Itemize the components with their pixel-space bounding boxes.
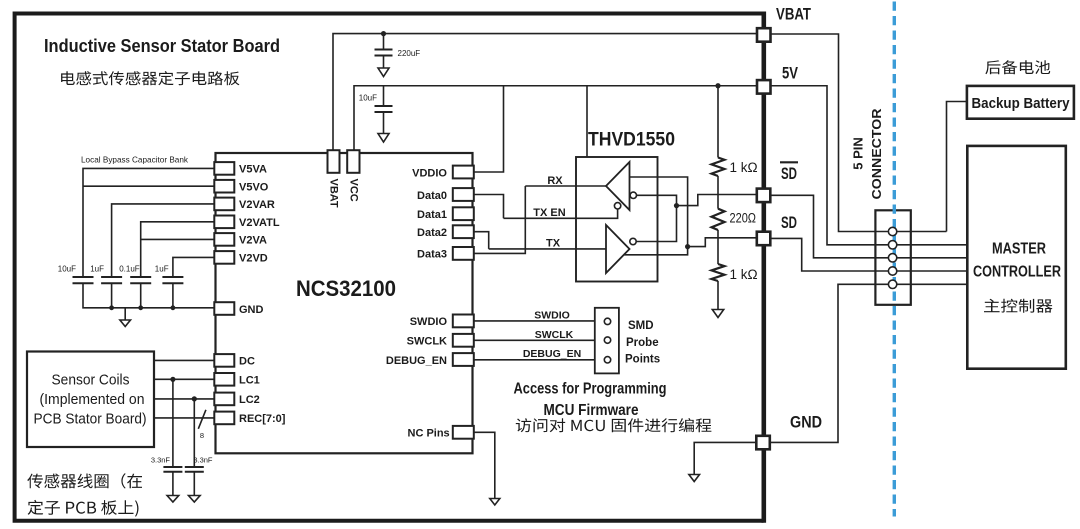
ground (resistor chain) <box>712 281 723 318</box>
pin DEBUG_EN <box>453 353 474 366</box>
box Backup Battery <box>967 86 1074 119</box>
wire RX <box>525 185 606 187</box>
svg-text:MASTER: MASTER <box>992 241 1046 258</box>
svg-text:NCS32100: NCS32100 <box>296 276 396 301</box>
connector pin circles <box>888 227 896 235</box>
ground (cap bank) <box>120 308 131 327</box>
pin V2VA <box>214 233 234 246</box>
left pins of NCS32100 <box>214 162 285 425</box>
junction dot LC2 <box>192 396 197 401</box>
svg-text:Probe: Probe <box>626 337 659 349</box>
pin V2VATL <box>214 216 234 229</box>
svg-text:Inductive Sensor Stator Board: Inductive Sensor Stator Board <box>44 35 280 56</box>
junction dot B net <box>674 203 679 208</box>
capacitor 3.3nF (2) <box>185 399 213 502</box>
svg-text:SD: SD <box>781 165 797 183</box>
label zh-coils2 <box>28 500 139 517</box>
svg-text:Data1: Data1 <box>417 209 447 221</box>
wire GND to connector pin5 <box>770 284 968 442</box>
enable bubble <box>614 203 620 209</box>
svg-text:PCB Stator Board): PCB Stator Board) <box>34 411 147 428</box>
capacitor 10uF (bank) <box>58 265 94 284</box>
junction dot A net <box>685 244 690 249</box>
svg-text:CONTROLLER: CONTROLLER <box>973 263 1061 280</box>
wire V5VA <box>83 168 214 277</box>
svg-text:SD: SD <box>781 214 797 232</box>
svg-text:1uF: 1uF <box>155 265 169 274</box>
bus line (board right edge) <box>761 12 766 523</box>
svg-text:DC: DC <box>239 356 255 368</box>
wire SD-bar to connector pin3 <box>770 195 967 257</box>
dashed board boundary <box>893 2 896 517</box>
svg-text:220Ω: 220Ω <box>730 210 757 225</box>
wire B to SD-bar square <box>677 195 758 206</box>
svg-text:220uF: 220uF <box>398 49 421 58</box>
label zh-mcu <box>516 418 712 432</box>
pin V5VA <box>214 162 234 175</box>
svg-text:V2VATL: V2VATL <box>239 217 280 229</box>
wire GND rail <box>83 283 214 308</box>
bus width slash 8 <box>198 410 206 440</box>
svg-text:VBAT: VBAT <box>776 6 811 24</box>
svg-text:3.3nF: 3.3nF <box>193 456 213 465</box>
ground (NC pins) <box>490 499 500 506</box>
svg-text:V5VO: V5VO <box>239 181 269 193</box>
svg-text:(Implemented on: (Implemented on <box>40 391 145 408</box>
node VBAT square <box>757 28 771 42</box>
right pins of NCS32100 <box>386 166 474 440</box>
label SD-bar <box>780 162 798 183</box>
wire 5V to connector pin2 <box>771 86 968 245</box>
svg-text:MCU Firmware: MCU Firmware <box>544 402 639 419</box>
board outline (Inductive Sensor Stator Board) <box>15 14 764 521</box>
svg-text:DEBUG_EN: DEBUG_EN <box>386 355 447 367</box>
label zh-master <box>984 299 1053 313</box>
svg-text:RX: RX <box>547 175 563 187</box>
svg-text:Data2: Data2 <box>417 227 447 239</box>
svg-text:VBAT: VBAT <box>328 179 340 208</box>
capacitor 10uF <box>359 86 393 142</box>
resistor R1 1 kOhm (top) <box>712 86 758 176</box>
wire V2VAR <box>112 204 215 277</box>
wire LC2 <box>154 398 214 400</box>
wire DEBUG_EN <box>474 359 605 361</box>
wire V2VA <box>141 238 215 240</box>
transceiver U2 THVD1550 <box>576 157 658 282</box>
pin Data3 <box>453 247 474 260</box>
svg-text:CONNECTOR: CONNECTOR <box>869 108 884 200</box>
svg-text:3.3nF: 3.3nF <box>151 456 171 465</box>
svg-text:SWDIO: SWDIO <box>410 316 448 328</box>
pin LC1 <box>214 373 234 386</box>
pin Data2 <box>453 225 474 238</box>
pin LC2 <box>214 393 234 406</box>
pin GND <box>214 302 234 315</box>
wire V2VATL <box>141 222 215 277</box>
receiver triangle (in THVD1550) <box>606 162 630 210</box>
svg-text:VCC: VCC <box>348 179 360 202</box>
wire SWDIO <box>474 320 605 322</box>
pin REC[7:0] <box>214 412 234 425</box>
svg-text:GND: GND <box>239 304 264 316</box>
capacitor 1uF (bank) <box>90 265 122 284</box>
wire VBAT net (pin up, across to VBAT square) <box>333 34 757 151</box>
svg-text:Backup Battery: Backup Battery <box>972 95 1071 112</box>
pin VBAT (top) <box>328 150 340 173</box>
svg-text:8: 8 <box>200 431 204 440</box>
svg-text:Access for Programming: Access for Programming <box>514 381 667 398</box>
junction dot VBAT/220uF <box>381 31 386 36</box>
capacitor 1uF (bank 2) <box>155 265 184 284</box>
junction dot 5V/resistor chain <box>715 83 720 88</box>
pin V2VAR <box>214 198 234 211</box>
svg-text:Local Bypass Capacitor Bank: Local Bypass Capacitor Bank <box>81 155 189 165</box>
svg-text:1uF: 1uF <box>90 265 104 274</box>
pin DC <box>214 354 234 367</box>
net A loop (receiver input / driver output) <box>624 177 688 255</box>
wire A to SD square <box>688 238 757 247</box>
wire TX <box>489 248 606 250</box>
pin VCC (top) <box>347 150 359 173</box>
svg-text:TX EN: TX EN <box>533 207 565 219</box>
wire V5VO <box>83 185 214 187</box>
svg-text:NC Pins: NC Pins <box>408 428 450 440</box>
wire Data2 to TX <box>474 232 489 249</box>
svg-text:10uF: 10uF <box>58 265 76 274</box>
svg-text:10uF: 10uF <box>359 94 377 103</box>
svg-text:SWDIO: SWDIO <box>534 310 570 322</box>
wire REC[7:0] <box>154 417 214 419</box>
wire DC <box>154 359 214 361</box>
svg-text:DEBUG_EN: DEBUG_EN <box>523 348 581 360</box>
svg-text:SWCLK: SWCLK <box>535 329 574 341</box>
svg-text:LC1: LC1 <box>239 375 260 387</box>
wire GND left + ground arrow <box>694 442 756 474</box>
node SD square <box>757 232 771 246</box>
svg-text:SMD: SMD <box>628 320 654 332</box>
SMD probe points header <box>595 308 619 374</box>
net B loop (bubbles) <box>636 195 676 241</box>
pin Data0 <box>453 188 474 201</box>
resistor R3 1 kOhm (bottom) <box>712 230 758 282</box>
pin VDDIO <box>453 166 474 179</box>
junction dot LC1 <box>170 377 175 382</box>
connector J1 (5 pin) <box>875 210 910 304</box>
wire V2VD <box>173 257 214 277</box>
capacitor 0.1uF (bank) <box>119 265 151 284</box>
svg-text:0.1uF: 0.1uF <box>119 265 140 274</box>
box Sensor Coils <box>27 352 154 448</box>
svg-text:V2VD: V2VD <box>239 253 268 265</box>
svg-text:GND: GND <box>790 414 822 432</box>
label zh-battery <box>985 60 1050 74</box>
svg-text:5 PIN: 5 PIN <box>851 137 866 170</box>
pin SWDIO <box>453 315 474 328</box>
label zh-subtitle <box>61 71 239 85</box>
wire VDDIO to 5V <box>474 86 504 172</box>
svg-text:TX: TX <box>546 238 561 250</box>
junction dots on GND rail <box>109 305 114 310</box>
wire SD to connector pin4 <box>770 238 967 271</box>
wire Data0 to TX_EN <box>474 195 504 219</box>
svg-text:Data0: Data0 <box>417 190 447 202</box>
wire LC1 <box>154 378 214 380</box>
resistor R2 220 Ohm <box>712 176 757 230</box>
pin V5VO <box>214 180 234 193</box>
svg-text:Data3: Data3 <box>417 249 447 261</box>
driver triangle (in THVD1550) <box>606 225 630 273</box>
svg-text:REC[7:0]: REC[7:0] <box>239 413 286 425</box>
capacitor 3.3nF (1) <box>151 379 183 502</box>
box MASTER CONTROLLER <box>967 146 1066 369</box>
node SD-bar square <box>757 189 771 203</box>
wire THVD VCC stub <box>586 86 588 157</box>
wire Data3 to RX <box>474 186 526 253</box>
pin SWCLK <box>453 334 474 347</box>
node GND square <box>756 436 770 450</box>
svg-text:Sensor Coils: Sensor Coils <box>52 372 130 389</box>
svg-text:LC2: LC2 <box>239 394 260 406</box>
svg-text:SWCLK: SWCLK <box>407 336 447 348</box>
wire VBAT to connector pin1 <box>771 34 947 232</box>
wire backup battery drop <box>947 102 967 232</box>
wire TX_EN <box>504 209 618 218</box>
label zh-coils1 <box>27 473 142 488</box>
svg-text:5V: 5V <box>782 65 798 83</box>
svg-text:V5VA: V5VA <box>239 164 267 176</box>
driver inverted-output bubble <box>630 238 636 244</box>
capacitor 220uF <box>375 34 421 77</box>
node 5V square <box>757 80 771 94</box>
pin V2VD <box>214 251 234 264</box>
wire 5V net (VCC pin up, across to 5V square) <box>354 86 757 150</box>
wire NC Pins <box>474 432 495 498</box>
receiver bus bubble <box>630 192 636 198</box>
svg-text:Points: Points <box>625 353 660 365</box>
svg-text:1 kΩ: 1 kΩ <box>730 267 758 282</box>
svg-text:THVD1550: THVD1550 <box>588 130 675 151</box>
svg-text:V2VA: V2VA <box>239 235 267 247</box>
wire SWCLK <box>474 339 605 341</box>
pin Data1 <box>453 207 474 220</box>
pin NC Pins <box>453 426 474 439</box>
bypass rail wires <box>83 168 214 310</box>
svg-text:V2VAR: V2VAR <box>239 199 275 211</box>
svg-text:VDDIO: VDDIO <box>412 167 447 179</box>
chip U1 NCS32100 <box>216 153 473 453</box>
svg-text:1 kΩ: 1 kΩ <box>730 160 758 175</box>
